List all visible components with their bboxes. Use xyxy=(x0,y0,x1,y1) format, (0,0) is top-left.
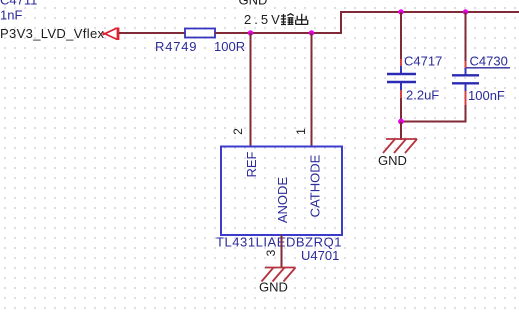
pin number 2 xyxy=(231,128,245,135)
capacitor C4730 designator (underlined) xyxy=(466,54,510,69)
svg-text:C4717: C4717 xyxy=(404,54,442,69)
net label 2.5V output (2.5V shuchu) xyxy=(244,12,308,27)
wire vertical step up xyxy=(340,11,342,34)
op-amp U4701 body (TL431 box) xyxy=(221,147,342,236)
svg-text:C4711: C4711 xyxy=(0,0,37,8)
ground symbol under capacitors xyxy=(383,139,417,153)
net label GND (clipped at top) xyxy=(239,0,268,8)
capacitor C4730 value 100nF xyxy=(468,88,505,103)
svg-text:1nF: 1nF xyxy=(0,8,22,23)
capacitor C4717 plates xyxy=(387,74,416,82)
wire down to pin 1 xyxy=(311,33,313,147)
svg-text:P3V3_LVD_Vflex: P3V3_LVD_Vflex xyxy=(0,26,105,41)
svg-text:1: 1 xyxy=(294,128,308,135)
svg-text:2: 2 xyxy=(231,128,245,135)
ground net label GND under U4701 xyxy=(259,280,288,295)
svg-text:GND: GND xyxy=(239,0,268,8)
pin number 1 xyxy=(294,128,308,135)
junction dot on top wire at C4717 xyxy=(398,9,403,14)
pin name CATHODE xyxy=(307,154,322,217)
resistor value label 100R xyxy=(214,39,245,54)
svg-text:2.2uF: 2.2uF xyxy=(406,88,439,103)
capacitor C4730 pin stubs (blue) xyxy=(465,68,467,91)
wire pin 3 to ground xyxy=(281,235,283,268)
svg-text:R4749: R4749 xyxy=(155,39,197,54)
capacitor C4717 designator xyxy=(404,54,442,69)
net label P3V3_LVD_Vflex xyxy=(0,26,105,41)
wire junction to ground xyxy=(400,122,402,141)
junction dot on top wire at C4730 xyxy=(463,9,468,14)
capacitor C4717 value 2.2uF xyxy=(406,88,439,103)
svg-text:100nF: 100nF xyxy=(468,88,505,103)
port P3V3_LVD_Vflex arrow symbol xyxy=(103,28,119,41)
svg-text:3: 3 xyxy=(264,249,278,256)
wire port to resistor xyxy=(119,32,186,34)
capacitor C4730 plates xyxy=(452,75,479,83)
wire C4730 down and left to junction xyxy=(400,105,466,122)
capacitor C4717 pins (red stubs) xyxy=(400,59,402,99)
wire resistor to corner xyxy=(215,32,342,34)
pin name ANODE xyxy=(275,177,290,224)
wire down to pin 2 xyxy=(250,33,252,147)
wire C4717 down to junction xyxy=(400,98,402,123)
junction dot below capacitors xyxy=(398,119,404,125)
svg-text:GND: GND xyxy=(259,280,288,295)
svg-text:CATHODE: CATHODE xyxy=(307,154,322,217)
svg-text:100R: 100R xyxy=(214,39,245,54)
svg-text:GND: GND xyxy=(378,153,407,168)
capacitor C4711 value label 1nF xyxy=(0,8,22,23)
svg-text:ANODE: ANODE xyxy=(275,177,290,224)
capacitor C4711 designator (clipped at top) xyxy=(0,0,37,8)
resistor R4749 designator xyxy=(155,39,197,54)
svg-text:C4730: C4730 xyxy=(470,54,508,69)
pin number 3 xyxy=(264,249,278,256)
wire down to C4730 xyxy=(465,12,467,62)
ground symbol under U4701 xyxy=(262,268,296,282)
part number label TL431LIAEDBZRQ1 xyxy=(216,235,342,250)
junction dot at pin2 column xyxy=(248,30,253,35)
junction dot at pin1 column xyxy=(309,30,314,35)
pin name REF xyxy=(244,151,259,177)
wire top horizontal to right edge xyxy=(341,11,519,13)
svg-text:REF: REF xyxy=(244,151,259,177)
capacitor C4717 pin stubs (blue) xyxy=(400,66,402,90)
svg-text:U4701: U4701 xyxy=(301,248,339,263)
designator U4701 xyxy=(301,248,339,263)
capacitor C4730 pins (red stubs) xyxy=(465,61,467,106)
wire down to C4717 xyxy=(400,12,402,60)
svg-text:2.5V: 2.5V xyxy=(244,12,283,27)
resistor R4749 body xyxy=(185,29,215,38)
ground net label GND under capacitors xyxy=(378,153,407,168)
